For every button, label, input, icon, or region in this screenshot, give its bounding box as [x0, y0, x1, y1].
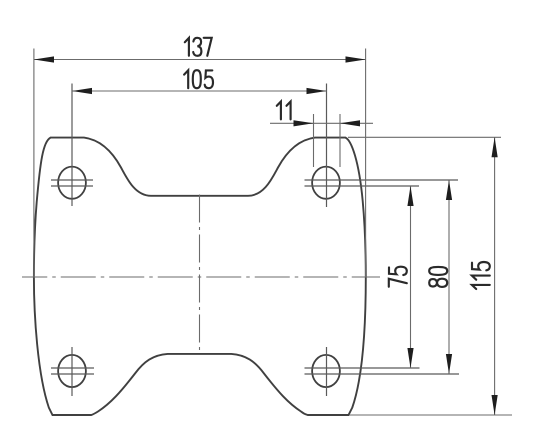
crosshair+extension 80 bottom-right hole [305, 373, 460, 375]
crosshair vertical top-right hole [326, 84, 328, 208]
extension line 11 right [339, 114, 341, 167]
dimension line 115 [492, 137, 498, 415]
extension line 115 top [348, 136, 501, 138]
dimension line 11 [270, 120, 373, 126]
crosshair vertical bottom-right hole [326, 347, 328, 396]
extension line 115 bottom [349, 414, 512, 416]
hole bottom-left [58, 355, 86, 387]
crosshair vertical bottom-left hole [71, 347, 73, 396]
label 11 [277, 102, 291, 120]
crosshair+extension 75 bottom-right hole [305, 367, 420, 369]
crosshair+extension 75 top-right hole [305, 185, 420, 187]
label 137 [185, 38, 212, 56]
label 75 [389, 267, 407, 287]
extension line 137 left [33, 49, 35, 278]
crosshair horizontals bottom-left hole [51, 368, 94, 374]
extension line 11 left [313, 114, 315, 167]
dimension line 137 [34, 56, 366, 62]
crosshair vertical top-left hole [71, 84, 73, 207]
dimension line 105 [72, 88, 327, 94]
label 105 [184, 70, 213, 88]
vertical centerline [199, 195, 201, 352]
hole top-left [58, 167, 86, 199]
dimension line 80 [446, 180, 452, 374]
label 115 [472, 262, 490, 289]
plate outline [34, 138, 366, 415]
extension line 137 right [365, 49, 367, 278]
horizontal centerline [22, 276, 380, 278]
hole bottom-right [312, 355, 340, 387]
crosshair horizontals top-left hole [51, 180, 93, 186]
label 80 [429, 267, 447, 287]
hole top-right [312, 167, 340, 199]
crosshair+extension 80 top-right hole [305, 179, 459, 181]
dimension line 75 [407, 186, 413, 368]
